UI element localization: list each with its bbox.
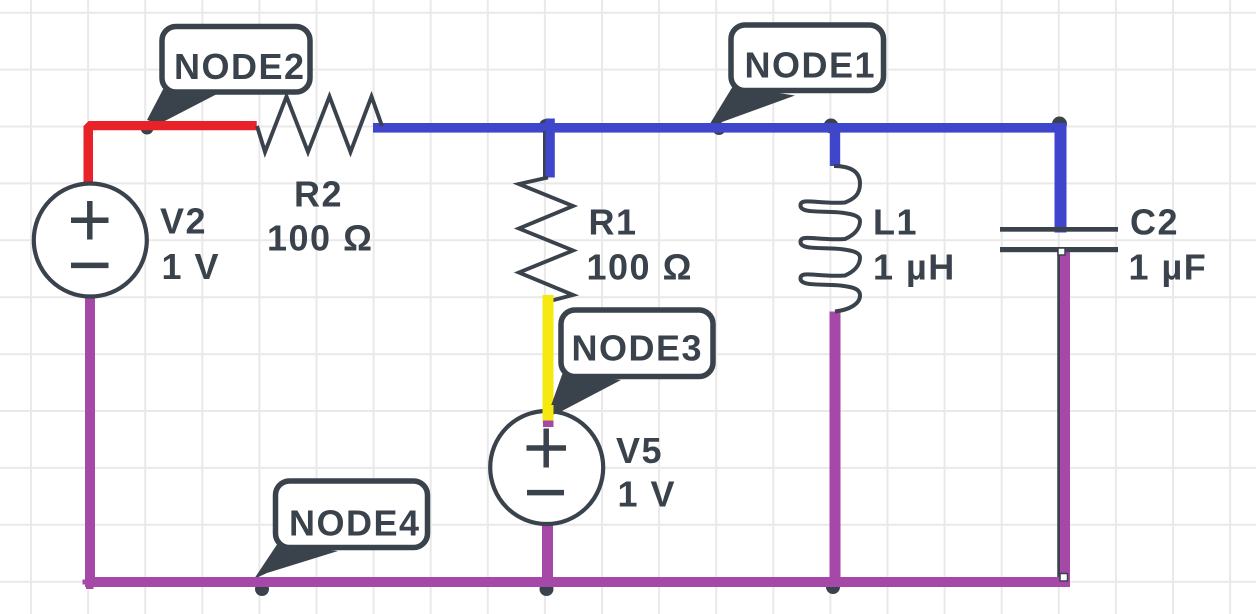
wire NODE1 blue horizontal (373, 123, 1066, 133)
callout NODE4 box (276, 481, 428, 548)
node dot on blue wire at R1 stub (539, 119, 553, 133)
voltage source V5 (490, 411, 603, 524)
svg-text:NODE1: NODE1 (745, 45, 877, 86)
junction dots (under wires) (141, 117, 1068, 597)
svg-text:V5: V5 (616, 430, 663, 471)
dark lead under C2 purple wire (1057, 250, 1061, 585)
svg-text:100 Ω: 100 Ω (587, 246, 693, 287)
svg-text:1 V: 1 V (162, 246, 221, 287)
svg-text:V2: V2 (160, 200, 207, 241)
callout NODE1 box (731, 25, 884, 91)
wire blue stub to L1 (830, 123, 840, 166)
node dot on bottom wire (NODE4 tap) (255, 582, 269, 596)
callout NODE1 pointer (708, 86, 795, 127)
callout NODE2 pointer (147, 88, 217, 125)
wire purple below V5 (542, 522, 553, 586)
terminal handle at C2 bottom (1058, 248, 1065, 255)
wire purple below L1 (830, 312, 841, 586)
callout NODE4 pointer (254, 543, 338, 579)
callout NODE3 pointer (547, 372, 621, 417)
svg-text:1 V: 1 V (618, 473, 677, 514)
inductor L1 (801, 166, 861, 312)
V5 top terminal (543, 421, 554, 428)
wire NODE4 purple V2 bottom vertical (85, 297, 95, 588)
svg-text:L1: L1 (873, 201, 918, 242)
wire NODE3 yellow R1 to V5 (543, 295, 554, 425)
callout NODE3 box (561, 310, 713, 377)
node dot on red wire (NODE2 tap) (141, 122, 154, 135)
resistor R1 lead line (543, 131, 546, 178)
node dot on bottom wire at L1 (826, 580, 840, 594)
node dot on bottom wire at V5 (540, 582, 554, 596)
wire purple below C2 (1060, 248, 1070, 584)
resistor R2 (257, 97, 382, 153)
svg-text:1 µF: 1 µF (1129, 247, 1208, 288)
callout NODE2 box (162, 27, 310, 93)
wire NODE3 yellow into V5 (543, 405, 554, 424)
wire blue vertical to C2 (1055, 123, 1067, 233)
svg-text:100 Ω: 100 Ω (267, 217, 373, 258)
svg-text:R1: R1 (589, 201, 638, 242)
terminal handle at bottom-right corner (1060, 574, 1068, 582)
svg-text:1 µH: 1 µH (873, 246, 956, 287)
node dot on blue wire (NODE1 tap) (713, 122, 726, 135)
node dot at blue corner (1052, 117, 1067, 132)
svg-text:NODE3: NODE3 (572, 328, 704, 369)
wire NODE2 red horizontal and vertical to V2 (84, 121, 257, 182)
svg-text:NODE4: NODE4 (289, 502, 421, 543)
capacitor C2 bottom plate (1000, 247, 1118, 252)
capacitor C2 top plate (1000, 227, 1118, 232)
wire blue stub to R1 (546, 119, 555, 178)
svg-text:R2: R2 (294, 174, 343, 215)
resistor R1 (519, 178, 573, 302)
voltage source V2 (34, 184, 147, 297)
wire NODE4 purple bottom horizontal (85, 577, 1070, 587)
wire end knob at bottom-left corner (83, 580, 87, 585)
svg-text:C2: C2 (1130, 202, 1179, 243)
node dot on blue wire at L1 stub (824, 119, 839, 134)
svg-text:NODE2: NODE2 (174, 46, 306, 87)
